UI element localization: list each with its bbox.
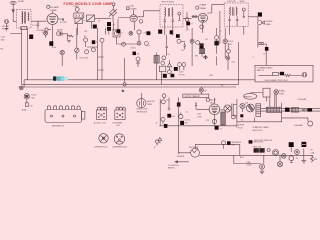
svg-text:6AQ5: 6AQ5 [210,101,214,104]
svg-text:6V BATTERY CABLE: 6V BATTERY CABLE [253,126,270,129]
svg-text:I-F AMP: I-F AMP [199,4,207,7]
svg-text:C10: C10 [167,54,170,56]
svg-text:MT1 ANT: MT1 ANT [2,25,9,28]
svg-text:A SPEAKER PLUG: A SPEAKER PLUG [113,146,128,149]
svg-text:R5: R5 [84,36,86,38]
svg-text:A 436: A 436 [22,109,26,112]
svg-text:C23: C23 [206,120,209,122]
svg-text:USED IN EARLY PROD ONLY: USED IN EARLY PROD ONLY [265,79,289,82]
svg-text:R4: R4 [137,54,139,56]
svg-text:A 16: A 16 [240,156,243,159]
svg-text:OUTPUT TRANS 32: OUTPUT TRANS 32 [185,95,200,98]
svg-text:TO PIN: TO PIN [179,75,185,77]
svg-text:R20: R20 [314,159,317,161]
svg-text:T2 505: T2 505 [31,95,36,97]
svg-text:DET AVC: DET AVC [266,20,274,23]
svg-text:AF-OUT: AF-OUT [210,99,216,102]
svg-text:L4: L4 [121,33,123,35]
svg-text:R3 AVC: R3 AVC [57,29,64,32]
svg-text:R-F AMP: R-F AMP [50,6,59,9]
svg-text:SOURCE: SOURCE [177,156,185,158]
svg-text:C9: C9 [148,46,150,48]
svg-text:SEE PARTS: SEE PARTS [232,141,242,144]
svg-text:R9: R9 [206,39,208,41]
svg-text:M1: M1 [1,49,3,51]
svg-text:A CONVERT: A CONVERT [113,121,123,124]
svg-text:R13: R13 [172,116,175,118]
svg-text:47: 47 [220,129,222,131]
svg-text:C15 01: C15 01 [228,41,234,43]
svg-text:C21: C21 [166,100,169,102]
svg-text:R7: R7 [191,24,193,26]
svg-text:C5A: C5A [129,5,134,8]
svg-text:TO A LEAD: TO A LEAD [298,98,307,101]
svg-text:C1 7.5: C1 7.5 [32,25,37,27]
svg-text:VOL CONT: VOL CONT [80,58,89,60]
svg-text:A SPKR: A SPKR [238,124,245,127]
svg-text:C24 02: C24 02 [185,120,191,122]
svg-text:6AL5 DET: 6AL5 DET [147,100,155,103]
svg-text:A DETECTOR: A DETECTOR [137,108,149,111]
svg-text:M1 ANT: M1 ANT [18,0,24,3]
svg-text:PL: PL [296,158,298,160]
svg-text:A OSCILL COIL: A OSCILL COIL [94,121,106,124]
svg-text:R16: R16 [185,122,188,124]
svg-text:455 KC: 455 KC [131,47,137,49]
svg-text:12AV6: 12AV6 [266,23,271,26]
svg-text:R1 470K: R1 470K [60,22,67,24]
svg-text:R11: R11 [264,44,267,46]
svg-text:GEN COND SEE NOTE: GEN COND SEE NOTE [254,140,273,142]
svg-text:DIAL LAMP: DIAL LAMP [294,124,304,127]
svg-text:C16: C16 [232,62,235,64]
svg-text:455KC: 455KC [240,1,246,3]
svg-text:C28: C28 [245,102,248,104]
svg-text:PLUG: PLUG [238,127,243,129]
svg-text:L2 ANT: L2 ANT [73,5,79,8]
svg-text:A BATT: A BATT [279,90,285,93]
svg-text:22: 22 [156,123,158,125]
svg-text:C2 05: C2 05 [1,37,6,39]
svg-text:C8 05: C8 05 [52,47,57,49]
svg-text:RECEPT: RECEPT [2,29,9,31]
svg-text:R2 1 MEG: R2 1 MEG [37,30,46,32]
svg-text:2468: 2468 [57,79,61,81]
svg-text:12BE6: 12BE6 [130,9,137,11]
svg-text:INPUT IF 455KC: INPUT IF 455KC [162,1,175,3]
svg-text:C4: C4 [98,21,100,23]
svg-text:FORD MODELS 21NR 18MF: FORD MODELS 21NR 18MF [64,2,113,6]
svg-text:TERM GUIDE: TERM GUIDE [137,111,148,113]
svg-text:C31: C31 [240,120,243,122]
svg-text:C13: C13 [186,30,189,32]
svg-text:ON-OFF SW: ON-OFF SW [189,147,199,149]
svg-text:C11: C11 [181,50,184,52]
svg-text:PART 18: PART 18 [257,69,264,72]
svg-text:12BA6: 12BA6 [200,7,207,10]
svg-text:SEE NOTE 2: SEE NOTE 2 [253,130,263,132]
svg-text:TO IGNITION: TO IGNITION [168,165,179,167]
svg-text:12BA6: 12BA6 [50,9,57,12]
svg-text:R14: R14 [198,114,201,116]
svg-text:B+: B+ [122,91,124,93]
svg-text:OUTPUT IF: OUTPUT IF [227,1,236,3]
svg-text:TERM: TERM [147,104,152,106]
svg-text:COND: COND [247,165,253,167]
svg-text:FUSE 14A: FUSE 14A [253,146,262,149]
svg-text:05: 05 [186,112,188,114]
svg-text:SWITCH: SWITCH [168,168,175,170]
svg-text:COIL: COIL [116,125,120,127]
svg-text:05: 05 [220,31,222,33]
svg-text:V1 VIBRATOR ASSY: V1 VIBRATOR ASSY [257,66,274,69]
svg-text:SPARK PL: SPARK PL [244,95,252,98]
svg-text:A PHONO PLUG: A PHONO PLUG [95,146,108,149]
svg-text:R10: R10 [195,56,198,58]
svg-text:LIST: LIST [232,145,236,147]
svg-text:C20: C20 [30,105,33,107]
svg-text:ANTENNA COIL: ANTENNA COIL [52,125,64,128]
